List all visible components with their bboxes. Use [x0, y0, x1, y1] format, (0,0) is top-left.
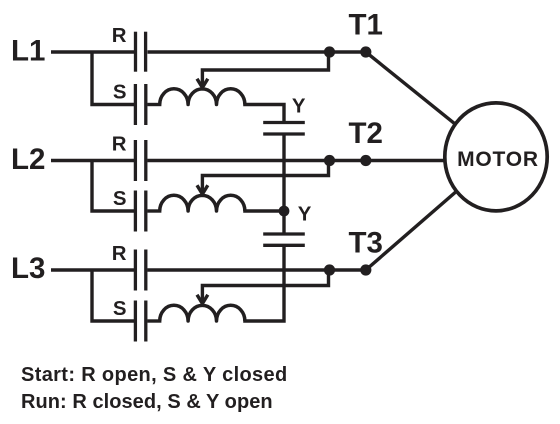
terminal T1 dot	[360, 46, 371, 57]
svg-text:Y: Y	[298, 204, 312, 226]
svg-text:R: R	[112, 243, 127, 265]
wire T2 to motor	[366, 159, 460, 162]
wire tap 3 to T3 line	[202, 270, 328, 301]
wire coil 2 to star node	[243, 209, 284, 212]
wire L2 to contact R2	[51, 159, 134, 162]
wire tap 2 to T2 line	[202, 161, 328, 192]
svg-text:S: S	[113, 82, 127, 104]
wire contact R2 to T2	[148, 159, 366, 162]
wire T1 to motor	[366, 52, 496, 157]
tap arrow coil 3	[197, 295, 208, 304]
wire contact Y1 to star node	[282, 134, 285, 211]
junction tap 2	[324, 155, 335, 166]
svg-text:L3: L3	[11, 252, 45, 285]
tap arrow coil 1	[197, 79, 208, 88]
svg-text:Y: Y	[292, 96, 306, 118]
wire L3 to contact R3	[51, 268, 134, 271]
contact S2	[135, 191, 145, 232]
star node junction dot	[279, 206, 290, 217]
wire coil 1 to contact Y1	[243, 105, 284, 123]
wire contact S3 to coil 3	[148, 319, 162, 322]
terminal T2 dot	[360, 155, 371, 166]
wire tap 1 to T1 line	[202, 52, 328, 85]
wire L1 to contact R1	[51, 50, 134, 53]
svg-text:T2: T2	[349, 117, 383, 150]
junction tap 1	[324, 46, 335, 57]
tap arrow coil 2	[197, 185, 208, 194]
motor M1	[445, 103, 547, 211]
contact R1	[136, 32, 146, 72]
contact S3	[135, 301, 145, 342]
autotransformer coil 2	[160, 195, 245, 211]
svg-text:T1: T1	[349, 9, 383, 42]
contact Y1	[263, 123, 305, 135]
autotransformer coil 3	[160, 305, 245, 321]
contact R3	[135, 250, 145, 291]
svg-text:L1: L1	[11, 35, 45, 68]
wire branch L2 down to contact S2	[92, 161, 134, 212]
svg-text:Start: R open, S & Y closed: Start: R open, S & Y closed	[21, 364, 288, 386]
wire branch L3 down to contact S3	[92, 270, 134, 321]
svg-text:L2: L2	[11, 143, 45, 176]
wire contact R3 to T3	[148, 268, 366, 271]
wire star node to contact Y2	[282, 211, 285, 234]
wire T3 to motor	[366, 157, 496, 270]
wire contact S1 to coil 1	[148, 103, 162, 106]
svg-text:R: R	[112, 25, 127, 47]
autotransformer coil 1	[160, 89, 245, 105]
svg-text:R: R	[112, 134, 127, 156]
terminal T3 dot	[360, 264, 371, 275]
contact S1	[135, 84, 145, 125]
svg-text:S: S	[113, 188, 127, 210]
wire branch L1 down to contact S1	[92, 52, 134, 105]
junction tap 3	[324, 264, 335, 275]
svg-text:S: S	[113, 298, 127, 320]
contact Y2	[263, 234, 305, 245]
svg-text:Run: R closed, S & Y open: Run: R closed, S & Y open	[21, 391, 273, 413]
svg-text:MOTOR: MOTOR	[457, 148, 539, 171]
svg-text:T3: T3	[349, 227, 383, 260]
wire contact S2 to coil 2	[148, 209, 162, 212]
contact R2	[135, 140, 145, 181]
wire contact R1 to T1	[148, 50, 366, 53]
wire contact Y2 to coil 3	[243, 245, 284, 321]
